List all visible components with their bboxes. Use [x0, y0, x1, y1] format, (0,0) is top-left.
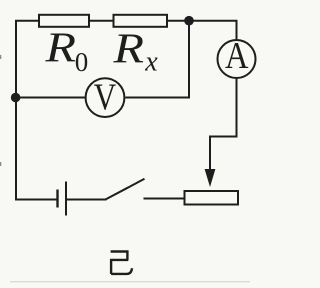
svg-text:V: V	[94, 76, 117, 118]
svg-text:x: x	[144, 46, 158, 77]
svg-text:R: R	[44, 26, 76, 72]
switch S blade	[106, 179, 145, 200]
scan edge artifacts	[10, 281, 250, 282]
resistor R0	[39, 15, 89, 27]
battery short plate	[56, 190, 58, 208]
wire between R0 and Rx	[90, 20, 113, 22]
node junction top dot	[184, 16, 194, 26]
voltmeter branch wire left	[16, 97, 86, 99]
svg-text:R: R	[112, 26, 144, 72]
wire Rx to top-right corner	[168, 21, 237, 40]
node junction left dot	[11, 93, 21, 103]
wire left vertical	[15, 20, 17, 200]
rheostat R box	[185, 191, 239, 205]
wire battery to switch	[67, 199, 107, 201]
svg-text:A: A	[225, 35, 249, 77]
wire junction down to voltmeter branch	[125, 21, 189, 98]
resistor Rx	[114, 15, 168, 27]
wire bottom-left	[15, 199, 57, 201]
wire top-left horizontal	[15, 20, 39, 22]
caption 己	[110, 252, 132, 274]
rheostat slider arrowhead	[205, 169, 216, 187]
wire switch to rheostat	[144, 198, 184, 200]
wire ammeter down	[210, 79, 237, 172]
ammeter A circle	[218, 40, 256, 78]
voltmeter V circle	[86, 78, 125, 117]
battery long plate	[65, 182, 67, 216]
svg-text:0: 0	[75, 47, 89, 77]
